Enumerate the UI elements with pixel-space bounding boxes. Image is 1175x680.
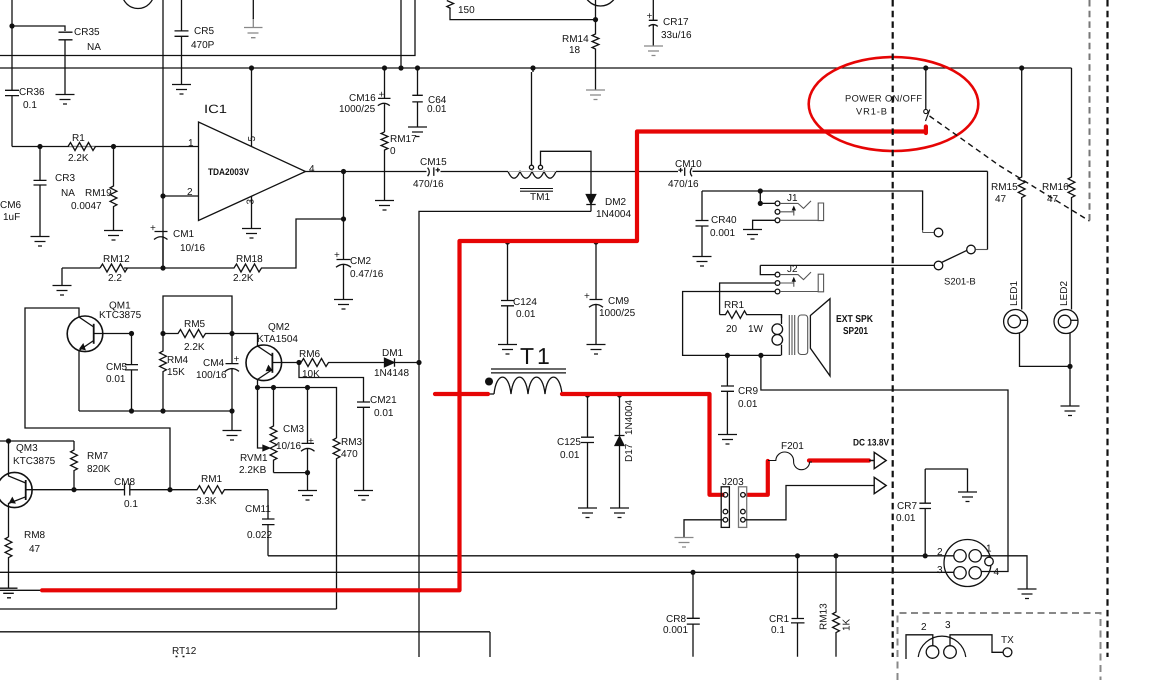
node (74,489.7) (71, 487, 76, 492)
svg-text:10K: 10K (302, 369, 320, 380)
svg-text:0.001: 0.001 (663, 625, 688, 636)
pin 2 wire (163, 195, 199, 197)
wire pin4 to TM1 (441, 171, 508, 173)
ground CM21 (354, 491, 373, 501)
svg-text:RM14: RM14 (562, 34, 589, 45)
resistor RM6 (299, 359, 384, 367)
QM2 base bar (271, 353, 273, 373)
svg-text:EXT SPK: EXT SPK (836, 314, 874, 325)
ground C124 (498, 345, 517, 355)
svg-text:IC1: IC1 (204, 102, 227, 116)
resistor RM16 (1068, 68, 1075, 310)
svg-text:1W: 1W (748, 324, 764, 335)
svg-text:CR36: CR36 (19, 87, 45, 98)
bus wire y590 stub (0, 589, 44, 591)
node (760.3,203.4) (758, 201, 763, 206)
ground CR5 wire (172, 85, 191, 95)
svg-text:0.1: 0.1 (23, 100, 37, 111)
svg-text:0.01: 0.01 (427, 104, 447, 115)
power switch lever (926, 110, 930, 122)
ground LEDs (1061, 406, 1080, 416)
node (131.5,411) (129, 408, 134, 413)
resistor RM8 (5, 537, 12, 588)
partial circle top-middle (584, 0, 618, 6)
QM2 base wire (272, 362, 299, 364)
TM1 center tap circles (529, 165, 533, 169)
node (163,411) (160, 408, 165, 413)
node (163,333.5) (160, 331, 165, 336)
J2 sleeve pin (775, 289, 780, 294)
resistor RM4 (160, 334, 167, 412)
resistor RM19 (110, 147, 117, 231)
svg-text:QM2: QM2 (268, 322, 290, 333)
svg-text:0.01: 0.01 (560, 450, 580, 461)
svg-text:RVM1: RVM1 (240, 453, 268, 464)
ground CR17 gray (644, 46, 663, 56)
J203 right housing (739, 487, 747, 528)
svg-text:3: 3 (945, 620, 951, 631)
wire CM21 branch (299, 363, 364, 402)
node (232,411) (229, 408, 234, 413)
ground CR40 (693, 257, 712, 267)
capacitor CM3 (301, 388, 315, 473)
mic pin1 wire to ground (981, 556, 1027, 589)
capacitor CR36 (5, 26, 19, 147)
capacitor CR8 (687, 572, 700, 656)
svg-text:CM21: CM21 (370, 395, 397, 406)
svg-text:KTA1504: KTA1504 (257, 334, 298, 345)
capacitor CR17 (649, 0, 658, 46)
mic pin 3 (954, 567, 966, 579)
svg-text:3: 3 (246, 199, 257, 205)
svg-text:LED1: LED1 (1009, 281, 1020, 306)
switch S201-B riser1 (923, 230, 934, 233)
node B (595.5,19.6) (593, 17, 598, 22)
mic connector keyway (985, 557, 994, 566)
resistor RM17 (381, 132, 388, 200)
capacitor C124 (501, 241, 514, 344)
svg-text:RM12: RM12 (103, 254, 130, 265)
node (727.4,355.4) (725, 353, 730, 358)
QM1 emitter (79, 341, 94, 412)
diode D17 (615, 394, 625, 436)
svg-text:CM2: CM2 (350, 256, 372, 267)
svg-text:C125: C125 (557, 437, 581, 448)
svg-text:CM11: CM11 (245, 504, 271, 515)
svg-text:RM1: RM1 (201, 474, 223, 485)
capacitor CM10 (678, 167, 692, 176)
lamp LED1 (1004, 310, 1028, 334)
ground RM12 (53, 286, 72, 296)
QM2 emitter row wire (258, 388, 337, 439)
svg-text:R1: R1 (72, 133, 85, 144)
svg-text:RM4: RM4 (167, 355, 189, 366)
bottom connector arc (918, 636, 966, 657)
ground CR3 (31, 237, 50, 247)
svg-text:1N4004: 1N4004 (596, 209, 631, 220)
svg-text:1K: 1K (842, 618, 853, 631)
QM3 collector top wire (0, 440, 74, 442)
resistor RM1 (170, 486, 268, 494)
wire RM12 left to ground (61, 268, 63, 285)
pin 4 output wire (306, 171, 442, 173)
node (273.5,387.5) (271, 385, 276, 390)
svg-text:S201-B: S201-B (944, 277, 976, 288)
wire IC1 input vertical x163 (162, 0, 164, 268)
resistor RM12 (100, 264, 163, 272)
J2 sleeve bar (780, 274, 824, 292)
svg-text:RT12: RT12 (172, 646, 197, 657)
red highlight T1 row (435, 394, 869, 495)
svg-text:+: + (379, 90, 385, 101)
svg-text:0.1: 0.1 (124, 499, 138, 510)
svg-text:CM8: CM8 (114, 477, 136, 488)
svg-text:QM3: QM3 (16, 443, 38, 454)
ground C125 (578, 508, 597, 518)
svg-text:4: 4 (309, 164, 315, 175)
node (299,362.5) (296, 360, 301, 365)
svg-text:NA: NA (87, 42, 101, 53)
svg-text:RM16: RM16 (1042, 182, 1069, 193)
ground chassis gray top (244, 18, 263, 38)
svg-text:0.001: 0.001 (710, 228, 735, 239)
svg-text:T1: T1 (520, 343, 553, 369)
wire TM1 tap2 to DM2 (541, 151, 592, 194)
node (1070,366.4) (1067, 364, 1072, 369)
svg-text:J1: J1 (787, 193, 798, 204)
svg-text:2: 2 (187, 187, 193, 198)
pin 5 wire (251, 68, 253, 146)
ground CM9 (587, 345, 606, 355)
J1 tip contact (780, 201, 811, 209)
QM1 collector (25, 308, 170, 490)
ground J1 (743, 230, 762, 240)
svg-text:RM15: RM15 (991, 182, 1018, 193)
svg-text:47: 47 (29, 544, 41, 555)
svg-text:0.1: 0.1 (771, 625, 785, 636)
svg-text:CR1: CR1 (769, 614, 789, 625)
resistor R1 (68, 143, 96, 151)
svg-text:100/16: 100/16 (196, 370, 227, 381)
wire pin1 row (12, 146, 199, 148)
node bus TM1 (530, 65, 535, 70)
J1 sleeve pin (775, 218, 780, 223)
dashed gray bottom box (898, 613, 1101, 680)
svg-text:CR7: CR7 (897, 501, 917, 512)
diode DM1 (385, 358, 395, 367)
svg-text:TM1: TM1 (530, 192, 550, 203)
TM1 core (520, 189, 553, 192)
node (760.3,191) (758, 188, 763, 193)
svg-text:KTC3875: KTC3875 (99, 310, 142, 321)
bottom connector pin 3 (944, 646, 957, 659)
svg-text:RM5: RM5 (184, 319, 206, 330)
J203 pins right (741, 493, 746, 498)
J2 ring pin (775, 281, 780, 286)
svg-text:470/16: 470/16 (413, 179, 444, 190)
wire CM3 to ground (307, 473, 309, 490)
svg-text:CM15: CM15 (420, 157, 447, 168)
svg-text:POWER ON/OFF: POWER ON/OFF (845, 94, 922, 104)
node (619.5,396) under red (617, 392, 622, 397)
capacitor CR3/CM6 (34, 147, 47, 237)
ground QM1 bus (223, 431, 242, 441)
T1 phase dot (485, 378, 493, 386)
svg-text:2.2K: 2.2K (233, 273, 254, 284)
svg-text:10/16: 10/16 (276, 441, 301, 452)
capacitor CM8 (74, 484, 170, 496)
capacitor CR7 (919, 469, 931, 556)
J203 ground wire (684, 520, 723, 537)
wire J2 row (760, 264, 934, 266)
RVM1 bottom wire (274, 472, 308, 474)
svg-text:RR1: RR1 (724, 300, 744, 311)
op-amp IC1 (199, 122, 306, 221)
bus wire y572 (0, 571, 954, 573)
node (170,489.7) (167, 487, 172, 492)
bottom connector pin3 wire to TX (950, 635, 1003, 653)
svg-text:820K: 820K (87, 464, 111, 475)
transistor QM2 (246, 345, 282, 381)
svg-text:RM8: RM8 (24, 530, 46, 541)
mic pin 1 (969, 550, 981, 562)
svg-text:1000/25: 1000/25 (599, 308, 636, 319)
wire CM10 to switch riser (693, 170, 988, 172)
bus wire y609 (0, 608, 337, 610)
J1 sleeve bar (780, 203, 824, 221)
bus wire y556 CM11 row (268, 555, 954, 557)
capacitor CM4 (225, 334, 239, 412)
ground D17 (610, 508, 629, 518)
wire 150 to RM14 node (450, 0, 596, 20)
svg-text:NA: NA (61, 188, 75, 199)
svg-text:3.3K: 3.3K (196, 496, 217, 507)
svg-text:RM3: RM3 (341, 437, 363, 448)
capacitor CR9 (721, 355, 734, 434)
capacitor CR40 (696, 191, 709, 256)
RVM1 wiper (258, 388, 264, 449)
svg-text:D17: D17 (624, 443, 635, 462)
svg-text:C124: C124 (513, 297, 537, 308)
node bus CM16 (382, 65, 387, 70)
svg-text:470: 470 (341, 449, 358, 460)
node (343.5,171.5) (341, 169, 346, 174)
QM3 collector (9, 441, 26, 483)
J203 pins left (723, 493, 728, 498)
J2 ring arrow (780, 280, 794, 287)
node (760.9,355.4) (758, 353, 763, 358)
capacitor CM9 (589, 241, 603, 344)
svg-text:33u/16: 33u/16 (661, 30, 692, 41)
svg-text:20: 20 (726, 324, 738, 335)
resistor RM18 (163, 219, 344, 272)
svg-text:470P: 470P (191, 40, 215, 51)
capacitor CR1 (791, 556, 805, 657)
S201-B contact2 wire (976, 249, 988, 251)
svg-text:+: + (647, 11, 653, 22)
wire from box top to main bus (400, 0, 402, 68)
TX terminal (1003, 648, 1012, 657)
svg-text:CR5: CR5 (194, 26, 214, 37)
resistor 150 top (447, 1, 454, 9)
node (419,362.5) (416, 360, 421, 365)
svg-text:2: 2 (937, 547, 943, 558)
main supply bus (0, 67, 1072, 69)
svg-text:1: 1 (986, 544, 992, 555)
node (113.5,146.5) (111, 144, 116, 149)
QM1 emitter bus wire (79, 411, 232, 430)
ground RM14 gray (586, 90, 605, 100)
svg-text:10/16: 10/16 (180, 243, 205, 254)
svg-text:DM1: DM1 (382, 348, 404, 359)
long vertical wire x490 (489, 632, 491, 657)
svg-text:0.01: 0.01 (106, 374, 126, 385)
svg-text:DM2: DM2 (605, 197, 627, 208)
J203 left housing (721, 487, 729, 528)
wire CR35 branch (12, 26, 65, 31)
bottom connector pin2 wire (906, 635, 933, 659)
capacitor CM5 (125, 334, 138, 412)
arrow output 1 (869, 452, 886, 468)
svg-text:CR40: CR40 (711, 215, 737, 226)
svg-text:+: + (334, 250, 340, 261)
svg-text:F201: F201 (781, 441, 804, 452)
S201-B contact 3 (934, 261, 943, 270)
svg-text:47: 47 (995, 194, 1007, 205)
svg-text:J2: J2 (787, 264, 798, 275)
QM3 emitter arrow (10, 498, 15, 503)
ground J203 gray (675, 538, 694, 548)
svg-text:RM13: RM13 (819, 603, 830, 630)
ground RM8 (0, 588, 18, 598)
svg-text:1000/25: 1000/25 (339, 104, 376, 115)
svg-text:CM1: CM1 (173, 229, 195, 240)
svg-text:CM9: CM9 (608, 296, 630, 307)
ground CM2 (334, 300, 353, 310)
ground C64 (408, 127, 427, 137)
svg-text:CM5: CM5 (106, 362, 128, 373)
power switch contact (924, 109, 928, 113)
CR7 top ground link (925, 469, 967, 492)
speaker cone (810, 299, 830, 376)
svg-text:0.01: 0.01 (896, 513, 916, 524)
node (925.2,555.8) (923, 553, 928, 558)
svg-text:2.2: 2.2 (108, 273, 122, 284)
bottom connector pin 2 (926, 646, 939, 659)
svg-text:VR1-B: VR1-B (856, 107, 887, 117)
J1 ring pin (775, 209, 780, 214)
wire J1 row (702, 191, 923, 230)
svg-text:150: 150 (458, 5, 475, 16)
node (307.5,387.5) (305, 385, 310, 390)
svg-text:TDA2003V: TDA2003V (208, 167, 250, 178)
svg-text:RM7: RM7 (87, 451, 109, 462)
wire RM14 below bus (595, 68, 597, 90)
S201-B lever (942, 250, 968, 262)
node (507.5,241) under red (505, 239, 510, 244)
svg-text:2.2KB: 2.2KB (239, 465, 267, 476)
transistor QM1 (67, 316, 103, 352)
speaker coil rect (798, 315, 808, 355)
J2 sleeve wire to speaker (683, 292, 781, 356)
capacitor CM16 (378, 68, 391, 132)
node (163,268) (160, 265, 165, 270)
node (131.5,333.5) (129, 331, 134, 336)
node bus boxwire (398, 65, 403, 70)
svg-text:CM10: CM10 (675, 159, 702, 170)
wire top-left vertical (11, 0, 13, 26)
J2 tip pin (775, 272, 780, 277)
ground RM19 (104, 231, 123, 241)
ground mic pin1 (1018, 589, 1037, 599)
node (596,241) under red (593, 239, 598, 244)
QM1 base bar (93, 324, 95, 344)
svg-text:+: + (584, 291, 590, 302)
svg-text:RM17: RM17 (390, 134, 417, 145)
node (587.5,396) under red (585, 392, 590, 397)
node (8.5,441) (6, 438, 11, 443)
bus wire y632 (0, 631, 490, 633)
svg-text:1N4004: 1N4004 (624, 400, 635, 435)
dashed border right (1106, 0, 1108, 657)
svg-text:LED2: LED2 (1059, 281, 1070, 306)
svg-text:RM18: RM18 (236, 254, 263, 265)
svg-text:DC 13.8V: DC 13.8V (853, 438, 890, 449)
wire TM1 tap1 (532, 68, 534, 165)
svg-text:0.0047: 0.0047 (71, 201, 102, 212)
svg-text:47: 47 (1047, 194, 1059, 205)
svg-text:2: 2 (921, 622, 927, 633)
resistor RM3 (333, 438, 340, 609)
svg-text:1N4148: 1N4148 (374, 368, 409, 379)
ground CR35 (56, 95, 75, 105)
lamp LED2 (1054, 310, 1078, 334)
svg-text:CM6: CM6 (0, 200, 22, 211)
QM1 emitter arrow (80, 344, 85, 349)
svg-text:3: 3 (937, 565, 943, 576)
svg-text:CM4: CM4 (203, 358, 225, 369)
speaker xfmr primary coil (781, 315, 783, 356)
dashed gray vertical (1089, 0, 1091, 221)
ground pin3 (242, 229, 261, 239)
J1 tip pin (775, 201, 780, 206)
resistor RM7 (71, 441, 78, 490)
node (343.5,219) (341, 216, 346, 221)
QM2 emitter arrow (PNP into bar) (267, 366, 272, 371)
capacitor CM15 (428, 167, 440, 176)
svg-text:0.022: 0.022 (247, 530, 272, 541)
potentiometer RVM1 (270, 388, 277, 473)
QM3 base bar (25, 480, 27, 500)
svg-text:CR8: CR8 (666, 614, 686, 625)
wire T1 left stub (488, 393, 494, 395)
svg-text:+: + (308, 436, 314, 447)
transformer T1 core (491, 369, 566, 373)
arrow output 2 (874, 477, 886, 493)
fuse F201 (768, 452, 812, 470)
capacitor C64 (412, 68, 423, 127)
svg-text:0.01: 0.01 (374, 408, 394, 419)
svg-text:5: 5 (247, 136, 258, 142)
mic connector outer (944, 540, 991, 587)
svg-text:CM3: CM3 (283, 424, 305, 435)
J2 tip contact (780, 272, 811, 280)
S201-B contact 1 (934, 228, 943, 237)
ground CR7 (958, 492, 977, 502)
QM1 base wire (94, 333, 132, 335)
top enclosure box (0, 0, 415, 56)
svg-text:CR3: CR3 (55, 173, 75, 184)
